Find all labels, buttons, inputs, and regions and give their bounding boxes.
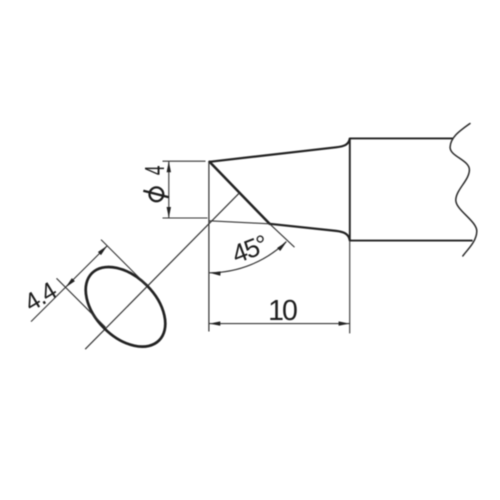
dim4.4 dimension line (31, 246, 107, 322)
shaft bottom edge (350, 240, 473, 242)
dim4.4 tangent extension line lower (57, 278, 106, 327)
phi4 arrow up (167, 161, 171, 172)
svg-text:4: 4 (139, 165, 170, 175)
shaft left edge (349, 138, 351, 240)
vertical extension line through tip vertex (208, 162, 210, 332)
dim4.4 arrow lower (64, 278, 75, 289)
bevel 45 deg thin extension line (270, 224, 295, 247)
arc arrow left (209, 271, 220, 276)
cone bottom edge thin extension line (209, 221, 269, 224)
bevel face ellipse (71, 252, 181, 362)
wavy break line (450, 124, 477, 257)
arc arrow right (277, 240, 288, 251)
dim10 arrow left (209, 321, 220, 325)
dim10 right extension line (349, 241, 351, 334)
tip cone top edge with flange flare (210, 139, 350, 162)
svg-text:10: 10 (268, 295, 297, 327)
shaft top edge (350, 137, 453, 139)
phi4 top extension line (163, 160, 206, 162)
dim4.4 arrow upper (98, 244, 109, 255)
tip cone bottom edge with flange flare (270, 224, 350, 241)
phi4 arrow down (167, 207, 171, 218)
45 deg angle arc (209, 242, 286, 273)
dim10 arrow right (339, 321, 350, 325)
bevel face edge (thick 45 deg line) (210, 162, 270, 224)
dim4.4 tangent extension line upper (101, 240, 148, 287)
phi4 label: diameter symbol (drawn) (150, 187, 164, 201)
45 deg view axis line to ellipse (85, 193, 239, 349)
phi4 bottom extension line (163, 217, 208, 219)
phi4 dimension line (168, 161, 170, 218)
dim10 dimension line (209, 323, 349, 325)
